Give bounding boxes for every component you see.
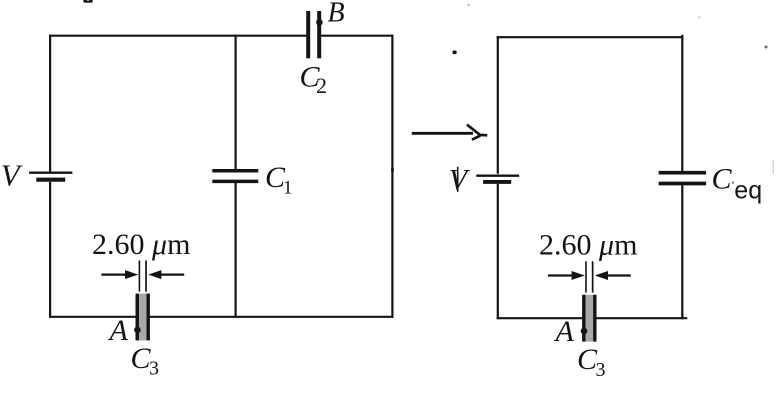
capacitor C3 left plate (right circuit) bbox=[582, 295, 586, 342]
wire: right circuit bottom side, left of C3 bbox=[497, 317, 583, 319]
node B dot on C2 right plate bbox=[316, 19, 323, 26]
wire: left circuit left side, above battery bbox=[49, 35, 51, 172]
faint speck right circuit top bbox=[698, 16, 701, 19]
svg-text:B: B bbox=[328, 0, 345, 29]
capacitor C1 top plate bbox=[212, 169, 258, 173]
svg-text:eq: eq bbox=[734, 177, 762, 205]
wire: left circuit middle branch, above C1 bbox=[235, 35, 237, 170]
wire: left circuit bottom side, left of C3 bbox=[49, 316, 136, 318]
wire: left circuit top side, left of C2 bbox=[49, 35, 307, 37]
svg-text:1: 1 bbox=[283, 177, 293, 198]
svg-text:V: V bbox=[449, 163, 471, 196]
dimension arrow left (right C3) bbox=[548, 271, 585, 280]
svg-text:A: A bbox=[108, 314, 129, 347]
dimension arrow right (right C3) bbox=[595, 271, 631, 280]
transformation arrow head bbox=[467, 125, 487, 140]
svg-text:C: C bbox=[712, 163, 733, 196]
wire: right circuit right side, below Ceq bbox=[681, 185, 683, 319]
capacitor C3 right plate (right circuit) bbox=[593, 295, 596, 342]
capacitor C3 gray dielectric gap (left circuit) bbox=[139, 294, 146, 341]
capacitor Ceq top plate bbox=[659, 171, 706, 175]
stray ink speck bbox=[453, 51, 457, 55]
dimension arrow right (left C3) bbox=[148, 270, 184, 279]
capacitor C2 right plate bbox=[317, 11, 321, 58]
wire: left circuit left side, below battery bbox=[49, 182, 51, 318]
wire: right circuit left side, above battery bbox=[497, 36, 499, 174]
battery V (right circuit) long thin plate bbox=[476, 174, 519, 176]
node A dot (right circuit) bbox=[581, 328, 588, 335]
stray vertical line through right V bbox=[457, 167, 459, 192]
wire: left circuit top side, right of C2 bbox=[321, 35, 394, 37]
wire: right circuit top side bbox=[497, 36, 684, 38]
dimension gap line right (right C3) bbox=[592, 261, 594, 292]
wire: right circuit bottom side, right of C3 bbox=[596, 317, 687, 319]
svg-text:A: A bbox=[554, 315, 575, 348]
wire: left circuit bottom side, right of C3 bbox=[150, 316, 394, 318]
capacitor C3 left plate (left circuit) bbox=[136, 294, 140, 341]
dimension gap line right (left C3) bbox=[145, 260, 147, 291]
node A dot (left circuit) bbox=[134, 327, 141, 334]
wire: left circuit right side bbox=[391, 35, 393, 318]
capacitor C1 bottom plate bbox=[212, 180, 258, 184]
dimension gap line left (left C3) bbox=[139, 260, 141, 291]
capacitor C2 left plate bbox=[306, 11, 310, 58]
capacitor C3 right plate (left circuit) bbox=[147, 294, 150, 341]
dimension arrow left (left C3) bbox=[101, 270, 138, 279]
wire: right circuit right side, above Ceq bbox=[681, 35, 683, 171]
junction notch on left circuit right side wire bbox=[391, 168, 394, 171]
battery V (left circuit) long thin plate bbox=[29, 171, 72, 173]
faint printing artifact line at right edge bbox=[773, 161, 774, 175]
svg-text:2: 2 bbox=[316, 73, 327, 98]
svg-text:3: 3 bbox=[149, 358, 159, 380]
svg-text:3: 3 bbox=[596, 359, 606, 381]
svg-text:V: V bbox=[1, 157, 23, 192]
battery V (right circuit) short thick plate bbox=[483, 180, 511, 184]
faint speck after Ceq C bbox=[732, 181, 734, 183]
dimension gap line left (right C3) bbox=[585, 261, 587, 292]
faint speck near top right bbox=[765, 46, 768, 49]
partial glyph cut off at top edge bbox=[83, 0, 92, 3]
transformation arrow shaft bbox=[412, 132, 473, 135]
capacitor C3 gray dielectric gap (right circuit) bbox=[586, 295, 593, 342]
wire: right circuit left side, below battery bbox=[497, 184, 499, 319]
battery V (left circuit) short thick plate bbox=[36, 178, 65, 182]
capacitor Ceq bottom plate bbox=[659, 182, 706, 186]
svg-text:2.60 μm: 2.60 μm bbox=[92, 228, 190, 261]
svg-text:2.60 μm: 2.60 μm bbox=[539, 229, 637, 262]
faint speck above arrow bbox=[467, 4, 469, 6]
wire: left circuit middle branch, below C1 bbox=[235, 183, 237, 318]
